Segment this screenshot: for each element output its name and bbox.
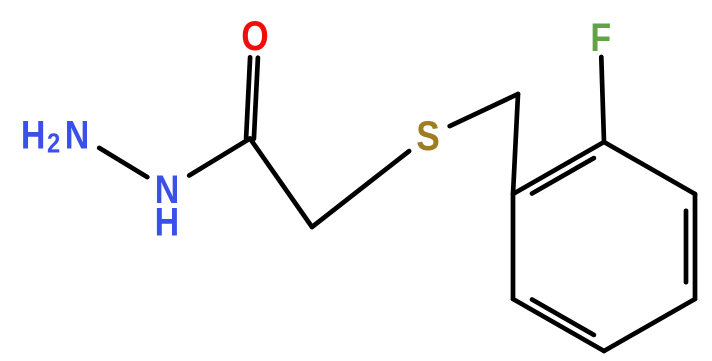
ring bond Dr-Er <box>604 299 695 351</box>
bond A-I benzylic CH2 to ring <box>513 94 518 194</box>
ring bond B-Cr <box>604 142 695 194</box>
ring bond I-B with inner double line <box>513 142 604 194</box>
svg-text:2: 2 <box>47 127 60 159</box>
bond N1-N2 hydrazine N-N <box>99 148 147 177</box>
svg-text:O: O <box>241 13 268 60</box>
bond N2-C3 amide N-C <box>189 139 250 176</box>
svg-text:H: H <box>155 199 180 244</box>
ring bond Er-Fr with inner double line <box>513 299 604 351</box>
label H2N hydrazide terminal amine <box>21 112 89 159</box>
ring bond Cr-Dr with inner double line <box>686 194 695 299</box>
label NH hydrazide <box>155 166 180 244</box>
double bond C3=O carbonyl <box>246 57 258 138</box>
svg-text:H: H <box>21 112 46 157</box>
bond C3-C4 <box>250 139 312 228</box>
bond S-A thioether to benzylic CH2 <box>450 94 518 126</box>
bond C4-S <box>312 151 409 227</box>
svg-text:F: F <box>590 14 611 59</box>
bond B-F fluorine <box>601 57 604 142</box>
ring bond Fr-I <box>511 194 516 299</box>
svg-text:N: N <box>65 112 90 157</box>
svg-text:S: S <box>416 113 440 160</box>
